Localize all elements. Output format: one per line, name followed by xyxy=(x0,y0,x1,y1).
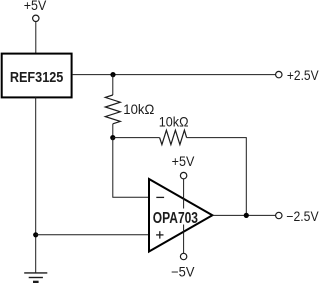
resistor R1 10k vertical xyxy=(105,95,120,124)
wire R1 to feedback junction xyxy=(112,124,114,138)
voltage reference U1 REF3125 xyxy=(2,54,72,98)
junction on +2.5V rail xyxy=(110,72,115,77)
svg-text:−5V: −5V xyxy=(171,265,194,280)
junction noninverting branch xyxy=(33,232,38,237)
pin plus symbol xyxy=(156,231,163,238)
wire REF3125 output to +2.5V terminal xyxy=(72,74,276,76)
ground xyxy=(24,273,47,282)
resistor R2 10k horizontal xyxy=(160,130,187,144)
node +2.5V output terminal xyxy=(276,71,282,77)
wire feedback node down to inverting input xyxy=(113,138,149,198)
node +5V supply terminal xyxy=(33,15,39,21)
wire R2 to output corner xyxy=(187,138,247,216)
svg-text:REF3125: REF3125 xyxy=(10,69,64,86)
pin minus symbol xyxy=(156,196,164,198)
wire REF3125 bottom to ground rail xyxy=(35,97,37,273)
wire junction to R2 xyxy=(113,137,160,139)
pin V+ line xyxy=(183,179,185,209)
svg-text:10kΩ: 10kΩ xyxy=(123,101,154,117)
wire supply to REF3125 xyxy=(35,22,37,54)
wire op-amp output to -2.5V terminal xyxy=(212,214,275,216)
svg-text:OPA703: OPA703 xyxy=(153,210,198,227)
svg-text:10kΩ: 10kΩ xyxy=(159,113,189,129)
wire to noninverting input xyxy=(36,234,149,236)
svg-text:+5V: +5V xyxy=(24,0,47,13)
junction feedback node xyxy=(110,135,115,140)
svg-text:+5V: +5V xyxy=(172,154,195,169)
wire junction down to R1 xyxy=(112,75,114,95)
junction output node xyxy=(244,213,249,218)
op-amp U2 OPA703 xyxy=(149,179,212,252)
pin V- line xyxy=(183,225,185,254)
svg-text:+2.5V: +2.5V xyxy=(287,68,319,83)
node -2.5V output terminal xyxy=(276,212,282,218)
node V+ pin terminal xyxy=(180,172,186,178)
svg-text:−2.5V: −2.5V xyxy=(286,209,318,224)
node V- pin terminal xyxy=(180,253,186,259)
